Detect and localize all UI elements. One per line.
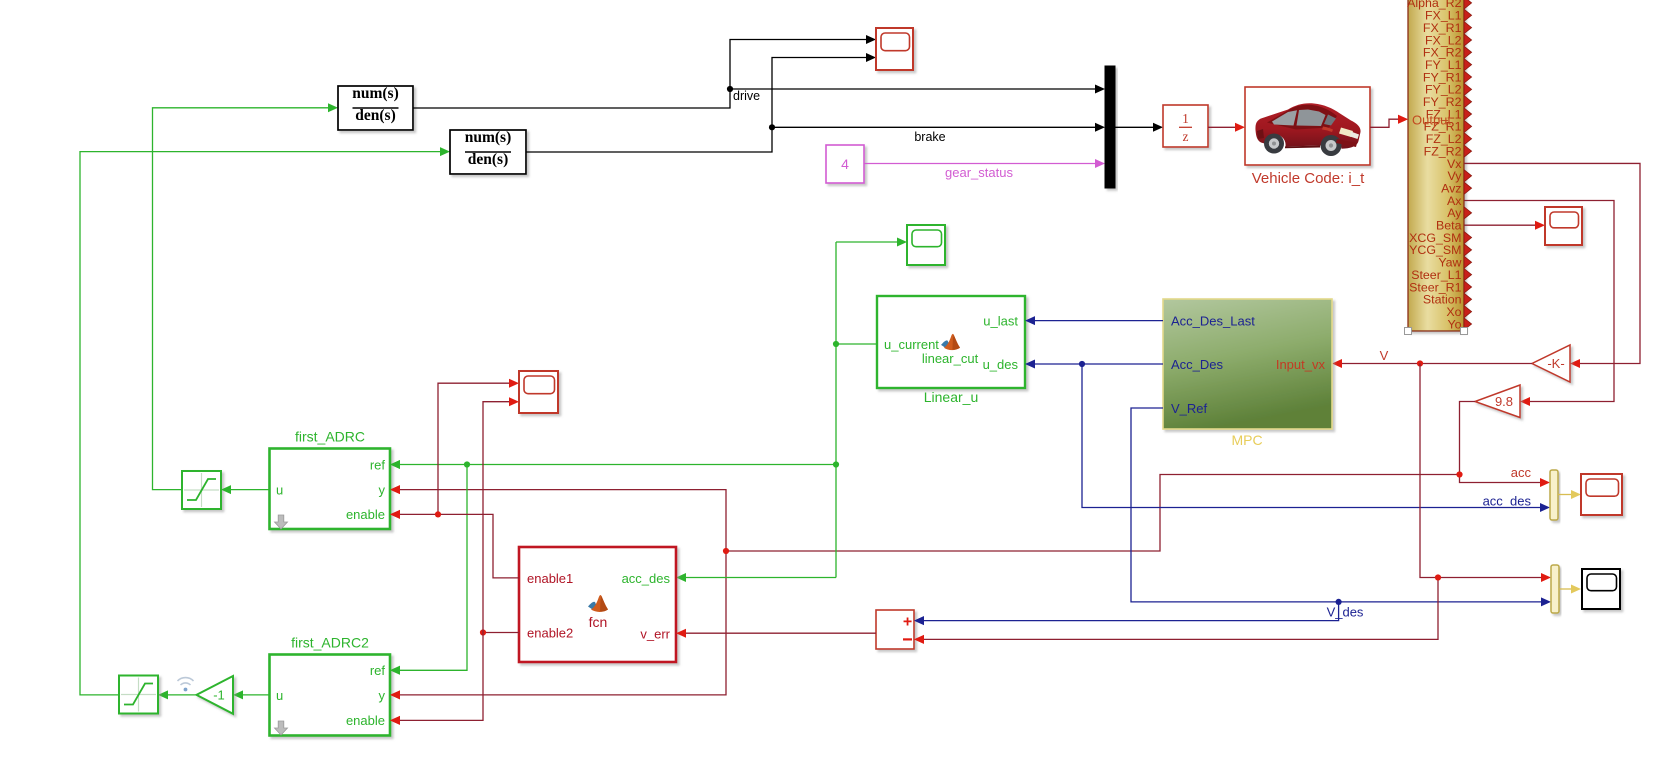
label Linear_u (924, 389, 979, 405)
svg-text:ref: ref (370, 457, 386, 472)
wire mux output to unit delay (black) (1115, 123, 1163, 132)
svg-text:9.8: 9.8 (1495, 394, 1513, 409)
port arrow fcn v_err (676, 629, 686, 638)
svg-text:Linear_u: Linear_u (924, 389, 979, 405)
scope enable (red, 2 inputs) (519, 371, 558, 413)
svg-text:num(s): num(s) (465, 129, 512, 146)
wire Vx to gain -K- (red) (1464, 163, 1640, 368)
mux acc/acc_des (yellow bar) (1550, 470, 1558, 520)
wire Beta to scope (red) (1464, 221, 1545, 230)
svg-text:enable2: enable2 (527, 626, 573, 641)
wire mux2 to scope (yellow) (1559, 585, 1581, 594)
label gear_status (945, 165, 1013, 180)
vehicle output bus block (olive) with output port chevrons (1407, 0, 1472, 331)
mux (black bar, 3 inputs) (1105, 66, 1115, 188)
label acc (1511, 465, 1532, 480)
svg-text:z: z (1183, 129, 1189, 144)
MATLAB function block fcn (red) (519, 547, 676, 662)
svg-text:MPC: MPC (1231, 432, 1262, 448)
svg-text:gear_status: gear_status (945, 165, 1013, 180)
svg-text:y: y (379, 688, 386, 703)
svg-text:Yo: Yo (1447, 317, 1461, 331)
wire Ax to gain 9.8 (red) (1464, 201, 1614, 407)
svg-text:first_ADRC2: first_ADRC2 (291, 635, 369, 651)
label first_ADRC (295, 429, 365, 445)
wire mux1 to scope (yellow) (1558, 490, 1581, 499)
constant block 4 (magenta) (826, 145, 864, 183)
svg-text:linear_cut: linear_cut (922, 351, 979, 366)
svg-text:-K-: -K- (1547, 356, 1564, 371)
svg-text:-1: -1 (213, 688, 225, 703)
mux V/V_des (yellow bar) (1551, 565, 1559, 613)
subsystem first_ADRC2 (green) (270, 655, 391, 736)
svg-text:Acc_Des: Acc_Des (1171, 357, 1224, 372)
wire Acc_Des_Last to u_last (blue) (1025, 316, 1163, 325)
svg-text:acc_des: acc_des (622, 571, 671, 586)
gain 9.8 (triangle pointing left) (1475, 385, 1520, 418)
wire saturation1 output feedback to TF1 (green) (153, 103, 339, 489)
port arrows first_ADRC2 (390, 666, 400, 725)
saturation block 2 (119, 676, 158, 714)
svg-text:y: y (379, 482, 386, 497)
wire saturation2 output feedback to TF2 (green) (80, 147, 450, 695)
svg-text:drive: drive (733, 89, 760, 103)
svg-text:4: 4 (841, 156, 849, 172)
svg-text:ref: ref (370, 663, 386, 678)
label MPC (1231, 432, 1262, 448)
wire first_ADRC u to saturation1 (green) (221, 485, 270, 494)
svg-text:1: 1 (1182, 111, 1189, 126)
label Vehicle Code: i_t (1252, 170, 1365, 187)
wire first_ADRC2 u to gain -1 (green) (233, 690, 270, 699)
svg-text:enable: enable (346, 507, 385, 522)
transfer function TF2 num(s)/den(s) (450, 129, 526, 174)
transfer function TF1 num(s)/den(s) (338, 85, 413, 130)
svg-text:enable: enable (346, 713, 385, 728)
scope V (black) (1582, 569, 1620, 609)
svg-text:Vehicle Code: i_t: Vehicle Code: i_t (1252, 170, 1365, 187)
vehicle plant block with car image (1245, 87, 1370, 165)
wire gain -1 to saturation2 (green) (158, 690, 197, 699)
svg-text:acc_des: acc_des (1483, 494, 1532, 509)
wire enable2 net (red) (390, 397, 519, 725)
svg-text:Input_vx: Input_vx (1276, 357, 1326, 372)
svg-text:V: V (1380, 348, 1389, 363)
wire V_Ref / V_des net (blue) (914, 408, 1551, 625)
olive block input port arrow + Output label (1398, 113, 1451, 128)
wire unit delay to vehicle (red) (1208, 123, 1245, 132)
port arrows first_ADRC (390, 460, 400, 519)
unit delay 1/z (1163, 105, 1208, 147)
label V_des (1327, 605, 1364, 620)
wire Acc_Des to u_des and acc_des mux (blue) (1025, 360, 1550, 513)
scope Beta (red) (1545, 207, 1582, 245)
sum block (red, + -) (876, 610, 924, 649)
wire V net to mux2 and sum minus (red) (914, 364, 1551, 644)
wire vehicle output to Output port (red) (1370, 115, 1408, 128)
svg-text:+: + (903, 614, 912, 631)
wire gear_status (magenta) (864, 159, 1105, 168)
gain -1 (triangle pointing left) (197, 676, 234, 714)
wireless logging icon (178, 678, 194, 692)
Linear_u block (green) (877, 296, 1025, 388)
saturation block 1 (182, 471, 221, 509)
svg-text:enable1: enable1 (527, 571, 573, 586)
label first_ADRC2 (291, 635, 369, 651)
wire 9.8 output acc net (red) (390, 402, 1550, 700)
wire -K- output to MPC Input_vx (red) (1332, 359, 1532, 368)
svg-text:u_last: u_last (983, 314, 1018, 329)
svg-text:V_Ref: V_Ref (1171, 401, 1208, 416)
svg-text:fcn: fcn (589, 614, 608, 630)
scope acc (red) (1581, 474, 1622, 515)
svg-text:den(s): den(s) (355, 107, 395, 124)
gain -K- (triangle pointing left) (1532, 345, 1570, 382)
label V (1380, 348, 1389, 363)
svg-text:u: u (276, 482, 283, 497)
wire ref line (green) (390, 460, 836, 675)
svg-text:brake: brake (914, 130, 945, 144)
svg-text:u_current: u_current (884, 337, 939, 352)
label acc_des (1483, 494, 1532, 509)
svg-text:V_des: V_des (1327, 605, 1364, 620)
wire TF1 output / drive net (black) (413, 35, 1105, 108)
scope u_current (green) (907, 225, 945, 265)
svg-text:first_ADRC: first_ADRC (295, 429, 365, 445)
label brake (914, 130, 945, 144)
label drive (733, 89, 760, 103)
scope drive-brake (red, 2 inputs) (876, 28, 913, 70)
olive block resize handles (1405, 328, 1468, 335)
wire enable1 net (red) (390, 379, 519, 578)
svg-text:num(s): num(s) (352, 85, 399, 102)
svg-text:u_des: u_des (983, 357, 1019, 372)
wire u_current net (green) (676, 238, 907, 583)
svg-text:Output: Output (1412, 113, 1451, 128)
svg-text:v_err: v_err (640, 626, 670, 641)
svg-text:den(s): den(s) (468, 151, 508, 168)
MPC block (green gradient) (1163, 299, 1332, 429)
svg-text:u: u (276, 688, 283, 703)
svg-text:acc: acc (1511, 465, 1532, 480)
subsystem first_ADRC (green) (270, 449, 391, 530)
wire TF2 output / brake net (black) (526, 53, 1105, 152)
wire sum output to v_err (red) (686, 632, 876, 634)
svg-text:Acc_Des_Last: Acc_Des_Last (1171, 314, 1255, 329)
